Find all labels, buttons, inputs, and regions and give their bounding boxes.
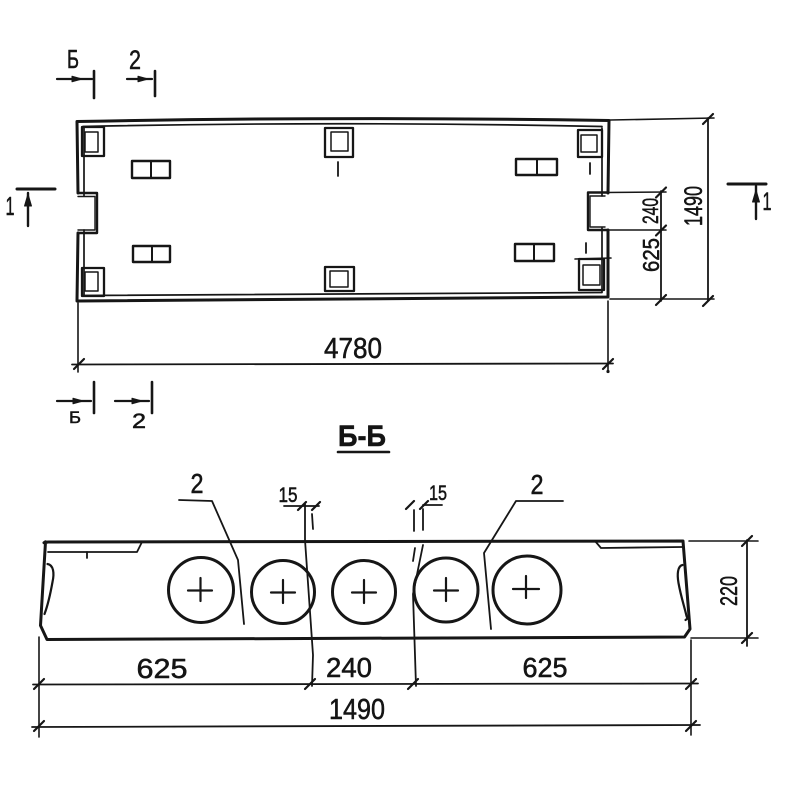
lifting loop pair right-top [516, 159, 557, 175]
section mark 1 left [17, 188, 55, 191]
svg-text:2: 2 [132, 410, 146, 433]
dimension line 4780 [72, 364, 613, 365]
void circle 1 [169, 558, 234, 623]
dimension 4780 extension lines [77, 303, 79, 372]
svg-text:Б-Б: Б-Б [338, 420, 386, 453]
dimension line 625 240 625 [33, 684, 698, 685]
right keyway recess inner line [590, 196, 605, 227]
void circle 2 [252, 561, 315, 624]
left keyway recess [78, 193, 97, 233]
section mark B top arrow [57, 78, 92, 80]
dimension line 220 [746, 540, 748, 646]
section top strip right [595, 541, 682, 548]
svg-text:2: 2 [191, 468, 204, 499]
svg-text:625: 625 [638, 238, 664, 272]
svg-text:1490: 1490 [680, 186, 708, 226]
plan view inner outline left [83, 127, 85, 295]
leader 15 right [423, 504, 442, 506]
lifting loop pair left-top [132, 161, 170, 178]
svg-text:1: 1 [6, 191, 15, 221]
corner square bottom-left [82, 268, 104, 296]
corner square bottom-right [579, 259, 604, 290]
svg-text:1490: 1490 [329, 694, 385, 726]
svg-text:625: 625 [523, 652, 568, 683]
vent square mid-bottom [325, 267, 354, 291]
svg-text:1: 1 [763, 188, 772, 216]
section mark B bottom arrow [57, 400, 91, 402]
right keyway recess [588, 193, 608, 231]
corner square top-right [578, 130, 602, 157]
section top strip left [48, 542, 142, 552]
leader 15 left [284, 505, 319, 507]
dimension line 1490 right [707, 118, 709, 301]
svg-text:2: 2 [129, 45, 141, 75]
cut line right 15 [414, 509, 423, 531]
plan view inner outline bottom [83, 293, 602, 296]
void circle 4 [414, 558, 478, 622]
leader 2 right [484, 501, 563, 629]
section mark 1 right [728, 183, 766, 186]
corner square top-left [82, 127, 104, 156]
dimension 220 extension lines [689, 540, 758, 542]
plan view inner outline right [601, 128, 603, 292]
plan view inner outline top [83, 124, 602, 127]
cut line left 15 [305, 504, 313, 686]
svg-text:625: 625 [137, 653, 188, 684]
section groove left [45, 564, 54, 614]
section groove right [678, 565, 688, 620]
svg-text:240: 240 [326, 652, 372, 683]
svg-text:220: 220 [716, 576, 743, 606]
leader 2 left [179, 500, 244, 624]
svg-text:Б: Б [67, 44, 79, 74]
section dim extension lines [38, 637, 40, 737]
void circle 3 [333, 561, 396, 624]
dimension line 1490 bottom [32, 725, 700, 727]
svg-text:4780: 4780 [324, 333, 382, 365]
section mark 2 bottom arrow [115, 400, 149, 402]
svg-text:2: 2 [531, 469, 544, 500]
lifting loop pair right-bottom [515, 244, 554, 261]
vent square mid-top [325, 128, 353, 157]
section outline [41, 541, 691, 640]
lifting loop pair left-bottom [133, 246, 170, 262]
void circle 5 [493, 556, 561, 624]
svg-text:Б: Б [69, 408, 81, 427]
svg-text:15: 15 [429, 482, 447, 505]
dimension line 240 625 right [660, 191, 662, 301]
svg-text:15: 15 [279, 484, 298, 507]
right side extension lines [610, 118, 714, 120]
plan view outer outline [77, 119, 609, 301]
left keyway recess inner line [78, 197, 95, 231]
section mark 2 top arrow [127, 78, 152, 80]
svg-text:240: 240 [638, 198, 663, 224]
